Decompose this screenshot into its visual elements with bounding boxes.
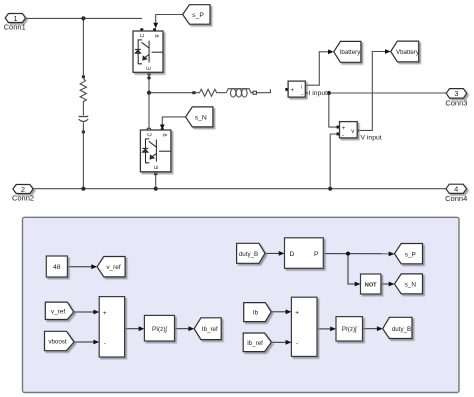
svg-text:s_N: s_N xyxy=(195,114,207,121)
svg-text:s_N: s_N xyxy=(405,282,417,289)
svg-text:vboost: vboost xyxy=(48,339,67,346)
svg-text:E: E xyxy=(147,66,153,70)
svg-text:v_ref: v_ref xyxy=(51,309,65,316)
svg-text:v_ref: v_ref xyxy=(106,264,120,271)
svg-text:Conn4: Conn4 xyxy=(445,194,467,203)
svg-text:g: g xyxy=(154,34,160,37)
svg-text:duty_B: duty_B xyxy=(239,251,258,258)
svg-text:s_P: s_P xyxy=(192,12,204,19)
svg-text:NOT: NOT xyxy=(365,282,377,288)
svg-text:V input: V input xyxy=(361,135,382,142)
svg-text:+: + xyxy=(291,88,295,94)
svg-text:Vbattery: Vbattery xyxy=(396,49,420,56)
svg-text:+: + xyxy=(295,309,299,316)
svg-text:3: 3 xyxy=(454,89,458,98)
svg-text:48: 48 xyxy=(53,264,61,271)
svg-text:Ib_ref: Ib_ref xyxy=(247,340,263,347)
svg-text:I input: I input xyxy=(309,90,328,97)
svg-text:P: P xyxy=(314,251,319,258)
svg-text:i: i xyxy=(301,84,302,90)
svg-text:Conn3: Conn3 xyxy=(445,98,467,107)
svg-text:C: C xyxy=(140,34,146,38)
svg-text:D: D xyxy=(290,251,295,258)
svg-text:duty_B: duty_B xyxy=(392,326,411,333)
svg-text:Conn1: Conn1 xyxy=(4,23,26,32)
svg-text:v: v xyxy=(351,129,354,135)
svg-text:-: - xyxy=(296,340,298,347)
svg-text:Ibattery: Ibattery xyxy=(340,49,362,56)
svg-text:-: - xyxy=(104,340,106,347)
svg-text:s_P: s_P xyxy=(405,251,416,258)
svg-text:Ib: Ib xyxy=(253,309,259,316)
svg-text:C: C xyxy=(148,133,154,137)
svg-text:+: + xyxy=(342,126,346,132)
svg-text:PI(z)ʃ: PI(z)ʃ xyxy=(152,326,167,333)
svg-text:-: - xyxy=(302,92,304,98)
svg-text:-: - xyxy=(342,133,344,139)
svg-text:1: 1 xyxy=(13,14,17,23)
svg-text:Ib_ref: Ib_ref xyxy=(202,326,218,333)
svg-text:PI(z)ʃ: PI(z)ʃ xyxy=(342,326,357,333)
svg-text:g: g xyxy=(162,133,168,136)
svg-text:Conn2: Conn2 xyxy=(12,194,34,203)
svg-text:2: 2 xyxy=(21,185,25,194)
svg-text:E: E xyxy=(154,165,160,169)
svg-text:4: 4 xyxy=(454,185,458,194)
svg-text:+: + xyxy=(103,310,107,317)
